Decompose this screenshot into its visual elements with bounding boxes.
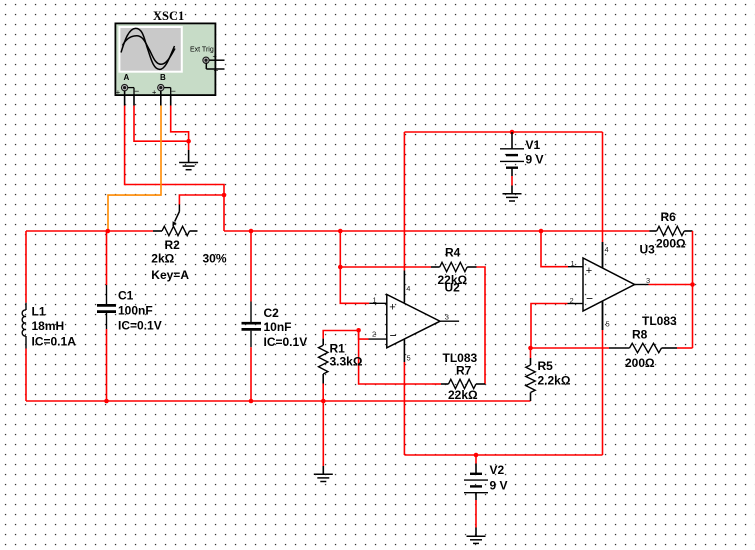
svg-text:30%: 30% [203, 251, 227, 265]
junction R5/R8 node [528, 346, 533, 351]
wire output node down to R8 right [692, 285, 694, 349]
svg-text:R4: R4 [445, 246, 461, 260]
svg-text:3.3kΩ: 3.3kΩ [330, 355, 363, 369]
ground (R1) [314, 474, 333, 481]
battery V2 [464, 455, 488, 500]
wire V2 negative rail [404, 454, 602, 456]
wire U2 +input branch [340, 231, 369, 303]
junction C2 tap [249, 229, 254, 234]
svg-text:22kΩ: 22kΩ [448, 388, 478, 402]
junction U3 +input tap [539, 229, 544, 234]
inductor L1 [22, 303, 26, 349]
junction V2 tap [474, 453, 479, 458]
svg-text:100nF: 100nF [118, 303, 153, 317]
label R2 values [151, 238, 227, 282]
svg-text:+: + [213, 52, 218, 61]
svg-text:1: 1 [571, 259, 575, 268]
wire scope B- to ground node [171, 106, 189, 142]
wire R6 right to U3 output [692, 231, 694, 285]
wire V2 rail to U3 pin5 [602, 330, 604, 455]
svg-text:R2: R2 [165, 238, 181, 252]
svg-text:XSC1: XSC1 [153, 9, 184, 23]
svg-text:C2: C2 [264, 306, 280, 320]
wire left vertical (L1 branch bottom) [25, 349, 27, 402]
wire tank-top net horizontal [26, 230, 153, 232]
wire R7 left lead [432, 383, 441, 385]
resistor R5 [526, 358, 535, 401]
wire R4 left [340, 266, 431, 268]
battery V1 [500, 132, 524, 176]
junction U3 output node [690, 282, 695, 287]
wire R8 left [531, 347, 610, 349]
svg-text:IC=0.1V: IC=0.1V [264, 335, 308, 349]
svg-text:TL083: TL083 [642, 314, 677, 328]
wire left vertical (L1 branch top) [25, 231, 27, 303]
label L1 values [32, 305, 77, 349]
wire scope A+ to wiper node [125, 106, 224, 196]
svg-text:4: 4 [605, 245, 609, 254]
junction C1 bottom [104, 399, 109, 404]
wire main net to U3/R6 [224, 230, 650, 232]
svg-text:B: B [160, 73, 166, 82]
svg-text:1: 1 [373, 295, 377, 304]
ground (V1) [503, 194, 522, 201]
wire scope B+ (orange) to tank-top net [108, 106, 161, 232]
ground (V2) [467, 536, 486, 543]
wire junction to U2 -input [359, 330, 369, 339]
op-amp U2 [369, 271, 460, 363]
capacitor C1 [97, 231, 116, 401]
wire R4 right to R7 right [477, 267, 486, 384]
svg-text:R8: R8 [632, 328, 648, 342]
wire R8 right [677, 347, 693, 349]
resistor R7 [441, 379, 485, 388]
svg-text:IC=0.1A: IC=0.1A [32, 335, 77, 349]
label V1 [526, 138, 544, 167]
wire R1 top to junction [323, 331, 358, 339]
capacitor C2 [242, 231, 262, 401]
svg-text:C1: C1 [118, 288, 134, 302]
svg-text:+: + [586, 265, 592, 277]
wire V1 positive rail [404, 131, 602, 133]
resistor R8 [609, 343, 677, 352]
svg-text:R5: R5 [538, 359, 554, 373]
wire U3 +input branch [541, 231, 568, 267]
label R1 values [330, 342, 363, 369]
svg-text:2: 2 [570, 296, 574, 305]
wire R1 ground stem [322, 401, 324, 466]
resistor R6 [650, 226, 693, 235]
svg-text:Ext Trig: Ext Trig [190, 46, 214, 53]
label V2 [490, 463, 508, 493]
svg-text:U3: U3 [640, 242, 656, 256]
svg-text:R1: R1 [330, 342, 346, 356]
svg-text:9 V: 9 V [526, 153, 544, 167]
svg-text:R6: R6 [661, 210, 677, 224]
svg-text:U2: U2 [445, 281, 461, 295]
svg-text:2.2kΩ: 2.2kΩ [538, 373, 571, 387]
junction C1/orange tap [106, 229, 111, 234]
svg-text:+: + [389, 302, 395, 314]
svg-text:200Ω: 200Ω [656, 237, 686, 251]
svg-text:A: A [124, 73, 130, 82]
svg-text:3: 3 [445, 312, 449, 321]
svg-text:18mH: 18mH [32, 319, 65, 333]
wire U3 output [649, 284, 693, 286]
op-amp U3 [568, 242, 651, 330]
svg-text:Key=A: Key=A [151, 268, 189, 282]
wire U2 pin5 to V2 rail [403, 362, 405, 455]
wire V1 to ground [511, 176, 513, 186]
svg-text:2: 2 [372, 329, 376, 338]
ground (scope) [179, 163, 198, 170]
wire bottom ground net [26, 400, 531, 402]
wire wiper to R2 arrow [179, 195, 224, 205]
wire wiper node down to tank-top net [223, 195, 225, 231]
svg-text:2kΩ: 2kΩ [151, 251, 174, 265]
wire V1 rail to U2 pin4 [403, 132, 405, 271]
junction R4 tap [338, 265, 343, 270]
junction wiper node [222, 193, 227, 198]
resistor R4 [431, 262, 477, 271]
wire V1 rail to U3 pin4 [602, 132, 604, 242]
wire R1 bottom to ground net [322, 384, 324, 402]
svg-text:IC=0.1V: IC=0.1V [118, 319, 162, 333]
label C1 values [118, 288, 162, 332]
junction C2 bottom [249, 399, 254, 404]
svg-text:−: − [586, 292, 593, 306]
junction R1 bottom [321, 399, 326, 404]
svg-text:−: − [134, 86, 139, 96]
svg-text:V2: V2 [490, 463, 505, 477]
junction V1 tap [510, 130, 515, 135]
svg-text:3: 3 [646, 276, 650, 285]
svg-text:9 V: 9 V [490, 478, 508, 492]
svg-text:5: 5 [606, 320, 610, 329]
junction scope ground node [186, 139, 191, 144]
svg-text:L1: L1 [32, 305, 46, 319]
svg-text:+: + [116, 87, 121, 96]
label R5 values [538, 359, 571, 387]
svg-text:+: + [152, 87, 157, 96]
wire scope A- to ground node [134, 106, 189, 142]
svg-text:R7: R7 [456, 364, 472, 378]
svg-text:200Ω: 200Ω [625, 356, 655, 370]
resistor R1 [319, 339, 328, 384]
wire R5 top [530, 348, 532, 358]
wire U3 -input to R5/R8 node [531, 304, 568, 349]
wire junction down to R7 left [359, 330, 432, 384]
oscilloscope XSC1 [115, 23, 224, 105]
wire V2 to ground [475, 500, 477, 528]
junction U2 -input node [356, 328, 361, 333]
svg-text:10nF: 10nF [264, 320, 292, 334]
svg-text:−: − [390, 328, 397, 342]
svg-text:TL083: TL083 [443, 351, 478, 365]
svg-text:V1: V1 [526, 138, 541, 152]
potentiometer R2 [153, 204, 198, 236]
svg-text:5: 5 [407, 353, 411, 362]
wire ground stem [188, 141, 190, 150]
svg-text:−: − [171, 86, 176, 96]
svg-text:4: 4 [406, 284, 410, 293]
junction U2 +input tap [338, 229, 343, 234]
svg-text:−: − [214, 66, 219, 76]
label C2 values [264, 306, 308, 349]
